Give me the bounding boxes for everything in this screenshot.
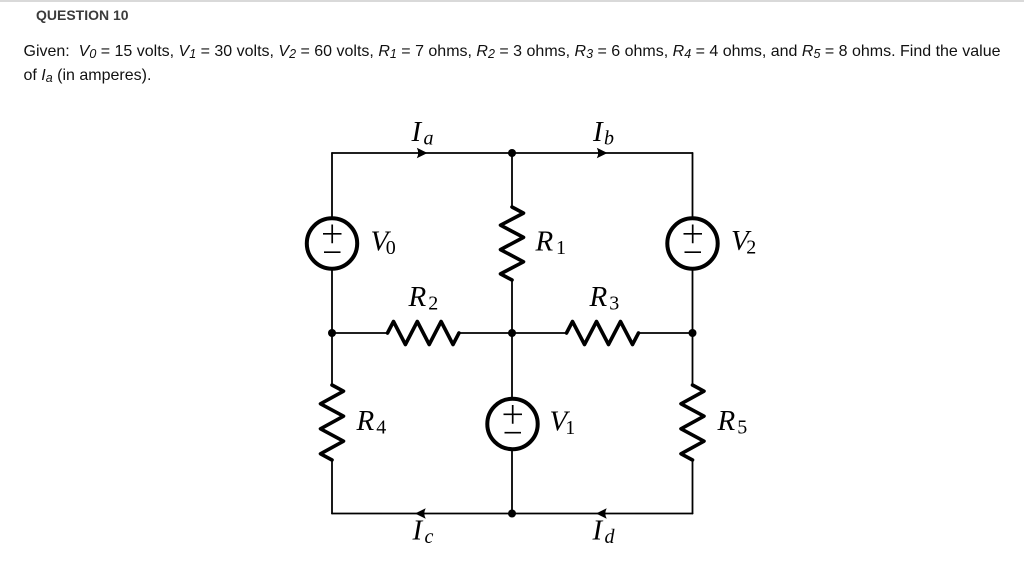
- resistor R2 body: [388, 322, 460, 345]
- wire right rail lower: [692, 460, 694, 514]
- wire top rail: [332, 152, 693, 154]
- svg-text:1: 1: [556, 237, 566, 259]
- node bottom center: [508, 510, 516, 518]
- svg-text:R: R: [408, 281, 427, 313]
- resistor R5 body: [681, 385, 704, 460]
- wire middle rail center: [458, 332, 567, 334]
- voltage source V1: [487, 399, 537, 449]
- svg-text:R: R: [717, 405, 736, 437]
- wire right rail upper: [692, 153, 694, 385]
- resistor R3 body: [567, 322, 639, 345]
- svg-text:I: I: [592, 116, 604, 148]
- wire bottom rail: [332, 513, 693, 515]
- svg-text:1: 1: [565, 417, 575, 439]
- svg-text:3: 3: [609, 293, 619, 315]
- wire middle rail left: [332, 332, 387, 334]
- svg-text:b: b: [604, 127, 614, 149]
- svg-text:0: 0: [386, 237, 396, 259]
- svg-text:a: a: [424, 127, 434, 149]
- arrow Ic: [415, 508, 426, 519]
- wire center rail upper: [511, 153, 513, 207]
- wire left rail upper: [331, 153, 333, 385]
- svg-text:R: R: [356, 405, 375, 437]
- svg-text:c: c: [425, 526, 434, 548]
- node top center: [508, 149, 516, 157]
- svg-text:R: R: [589, 281, 608, 313]
- arrow Ib: [597, 148, 608, 159]
- node middle left: [328, 329, 336, 337]
- svg-text:2: 2: [746, 236, 756, 258]
- wire left rail lower: [331, 460, 333, 514]
- svg-text:2: 2: [428, 293, 438, 315]
- svg-text:R: R: [535, 226, 554, 258]
- node middle right: [689, 329, 697, 337]
- wire middle rail right: [639, 332, 693, 334]
- arrow Id: [596, 508, 607, 519]
- svg-text:I: I: [592, 515, 604, 547]
- wire center rail lower: [511, 280, 513, 514]
- svg-text:5: 5: [737, 417, 747, 439]
- node middle center: [508, 329, 516, 337]
- voltage source V2: [667, 218, 717, 268]
- svg-text:I: I: [412, 515, 424, 547]
- resistor R4 body: [321, 385, 344, 460]
- svg-text:I: I: [411, 116, 423, 148]
- resistor R1 body: [501, 207, 524, 280]
- arrow Ia: [417, 148, 428, 159]
- svg-text:d: d: [605, 526, 616, 548]
- voltage source V0: [307, 218, 357, 268]
- svg-text:4: 4: [376, 417, 386, 439]
